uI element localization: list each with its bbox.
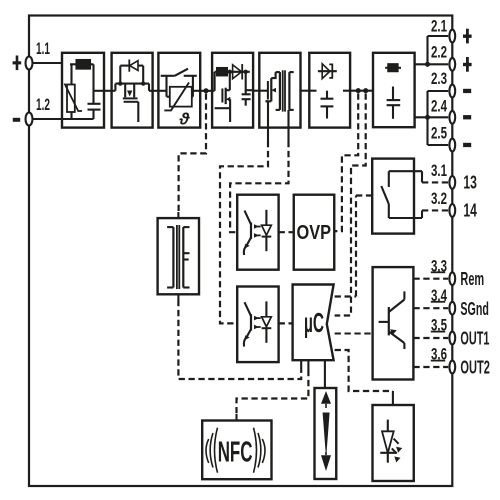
NFC solid lead: [235, 414, 237, 421]
terminal 2.5: [449, 139, 455, 152]
minus signs right: [463, 89, 471, 93]
dashed node2 to uC sense: [335, 94, 366, 316]
dashed node1 to OVP right: [334, 94, 358, 232]
box output rectifier: [309, 53, 350, 128]
capacitor C3: [321, 91, 334, 119]
MOSFET Q1: [123, 84, 139, 122]
optocoupler U2 symbol: [244, 301, 271, 346]
fuse F3: [385, 64, 401, 71]
bypass switch S1: [158, 69, 200, 97]
uC bottom stub 2: [307, 360, 309, 370]
terminal circle 1.1: [26, 57, 33, 70]
fuse F1: [70, 60, 94, 69]
svg-text:1.1: 1.1: [36, 40, 50, 58]
transformer T2 symbol: [167, 225, 189, 289]
OVP box: [294, 195, 335, 270]
svg-text:3.2: 3.2: [431, 190, 447, 208]
svg-text:3.4: 3.4: [431, 287, 447, 305]
box DC/DC front end: [212, 53, 253, 128]
diode D2: [233, 64, 243, 80]
LED box: [373, 405, 414, 481]
terminal 3.5 OUT1: [449, 332, 455, 345]
optocoupler U1 symbol: [244, 210, 271, 255]
svg-text:2.5: 2.5: [431, 124, 447, 142]
capacitor C1: [88, 64, 105, 119]
node: [118, 81, 122, 85]
bottom lead B: [287, 110, 289, 141]
terminal 3.6 OUT2: [449, 361, 455, 374]
wire 1.1 to input filter: [33, 62, 62, 64]
svg-text:2.3: 2.3: [431, 70, 447, 88]
svg-text:3.3: 3.3: [431, 257, 447, 275]
wire 1.2 to input filter: [33, 118, 62, 120]
uC bottom stub 1: [300, 360, 302, 370]
minus sign left: [13, 118, 20, 122]
svg-text:SGnd: SGnd: [460, 298, 489, 319]
arrow box (data transfer): [315, 388, 337, 479]
plus signs right: [463, 35, 472, 38]
dashed T2 bottom to uC stub1: [178, 300, 301, 379]
TVS diode D1: [120, 60, 143, 84]
diode D3 schottky: [309, 64, 350, 91]
wire: [301, 90, 310, 92]
dashed opto2 to uC: [279, 322, 293, 324]
box output filter: [373, 53, 415, 127]
svg-text:ϑ: ϑ: [179, 110, 191, 129]
feedback transformer box: [158, 218, 199, 294]
LED D4: [380, 420, 402, 463]
NFC wave arcs right: [254, 428, 266, 473]
node: [228, 70, 232, 74]
svg-text:NFC: NFC: [218, 436, 253, 468]
double arrow symbol: [321, 391, 331, 471]
svg-text:3.5: 3.5: [431, 317, 447, 335]
svg-text:3.1: 3.1: [431, 162, 447, 180]
relay box: [372, 159, 414, 234]
terminal 2.3: [449, 85, 455, 98]
terminal circle 1.2: [26, 113, 33, 126]
node junction with dot: [200, 90, 212, 92]
box inrush current limiter: [158, 53, 200, 128]
dashed from node after inrush box down to T2: [179, 94, 206, 213]
terminal 3.3 Rem: [449, 272, 455, 285]
solid leads of T2: [177, 212, 179, 218]
dashed network: [178, 94, 393, 415]
MOSFET Q2: [215, 72, 231, 122]
wire: [253, 90, 259, 92]
uC lead to arrow box: [324, 360, 326, 388]
dashed uC to LED: [335, 350, 393, 391]
terminal 2.1: [449, 30, 455, 43]
dashed wire to 3.1: [422, 181, 448, 183]
dashed wires to 3.3-3.6: [413, 279, 448, 367]
svg-text:2.1: 2.1: [431, 18, 447, 36]
dashed wire to 3.2: [422, 209, 448, 211]
dashed control to transistor: [335, 332, 373, 334]
svg-text:3.6: 3.6: [431, 346, 447, 364]
NFC box: [202, 421, 271, 480]
terminal 3.4 SGnd: [449, 302, 455, 315]
box switching stage / transformer: [259, 53, 300, 128]
svg-text:µC: µC: [304, 307, 324, 338]
transformer T1 primary/secondary: [276, 70, 294, 111]
uC box with notch: [293, 285, 334, 361]
transistor Q4: [379, 291, 405, 349]
LED solid lead: [392, 391, 394, 405]
svg-text:2.2: 2.2: [431, 44, 447, 62]
bottom lead A: [267, 101, 269, 141]
NFC wave arcs left: [206, 428, 218, 473]
dashed relay control from uC: [335, 196, 373, 297]
dashed lead B from transformer to opto1: [230, 141, 288, 232]
capacitor C2: [242, 72, 254, 106]
main output line with nodes: [350, 90, 373, 92]
wire: [104, 90, 112, 92]
NTC thermistor RT1: [164, 83, 193, 111]
svg-text:13: 13: [463, 171, 477, 192]
terminal 3.1: [449, 176, 455, 189]
MOSFET Q3: [259, 72, 276, 101]
wire: [153, 90, 159, 92]
box Q1 reverse polarity protection: [112, 53, 153, 128]
svg-text:OUT1: OUT1: [460, 328, 489, 349]
transistor box (signal outputs): [373, 267, 414, 379]
plus sign left: [13, 29, 472, 147]
opto coupler box 1: [237, 195, 278, 270]
capacitor C4: [387, 87, 401, 119]
terminal 2.4: [449, 111, 455, 124]
terminal 3.2: [449, 204, 455, 217]
box F1 input fuse/filter: [62, 53, 104, 128]
fuse F2: [212, 68, 250, 91]
dashed lead A from transformer to opto2: [220, 141, 268, 323]
svg-text:OUT2: OUT2: [460, 357, 490, 378]
node to uC sense: [363, 88, 368, 93]
svg-text:Rem: Rem: [460, 268, 484, 289]
node: [141, 81, 145, 85]
output wires to terminals 2.1-2.5: [415, 36, 449, 145]
node to OVP: [356, 88, 361, 93]
underlines for 3.3-3.6 labels: [431, 272, 445, 360]
dashed uC stub2 to NFC: [237, 370, 309, 414]
node: [244, 70, 248, 74]
dashed opto1 to OVP: [279, 231, 294, 233]
opto coupler box 2: [237, 287, 278, 363]
varistor RV1: [62, 64, 94, 119]
svg-text:14: 14: [463, 199, 477, 220]
svg-text:1.2: 1.2: [36, 96, 50, 114]
terminal 2.2: [449, 58, 455, 71]
svg-text:OVP: OVP: [297, 221, 332, 244]
relay contact 13/14: [381, 171, 422, 218]
svg-text:2.4: 2.4: [431, 97, 447, 115]
